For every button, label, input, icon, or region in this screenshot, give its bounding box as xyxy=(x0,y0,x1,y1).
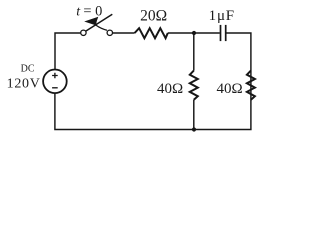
svg-text:1μF: 1μF xyxy=(209,8,235,24)
svg-text:= 0: = 0 xyxy=(83,4,102,20)
svg-text:t: t xyxy=(76,5,81,20)
svg-text:DC: DC xyxy=(21,64,35,75)
svg-text:40Ω: 40Ω xyxy=(157,81,183,97)
svg-text:120V: 120V xyxy=(7,76,41,91)
svg-text:40Ω: 40Ω xyxy=(217,81,243,97)
svg-text:20Ω: 20Ω xyxy=(140,7,167,24)
